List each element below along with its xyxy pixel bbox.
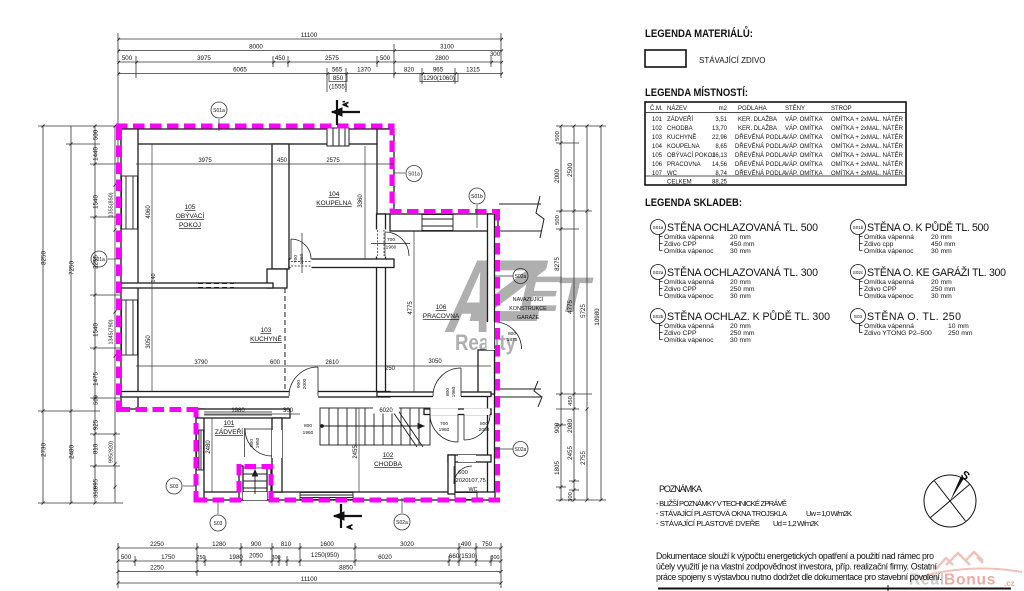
svg-text:- STÁVAJÍCÍ PLASTOVÉ DVEŘE: - STÁVAJÍCÍ PLASTOVÉ DVEŘE (656, 519, 760, 528)
svg-text:30 mm: 30 mm (931, 248, 952, 255)
svg-text:KUCHYNĚ: KUCHYNĚ (667, 133, 696, 141)
svg-text:300: 300 (283, 408, 294, 414)
svg-text:20 mm: 20 mm (931, 279, 952, 286)
svg-text:925: 925 (93, 419, 100, 430)
svg-text:Omítka vápenná: Omítka vápenná (664, 279, 714, 286)
svg-text:660(1530): 660(1530) (449, 553, 477, 560)
svg-text:20 mm: 20 mm (730, 323, 751, 330)
svg-text:500: 500 (121, 554, 132, 561)
svg-text:OMÍTKA + 2xMAL. NÁTĚR: OMÍTKA + 2xMAL. NÁTĚR (831, 169, 904, 177)
svg-text:- STÁVAJÍCÍ PLASTOVÁ OKNA TROJ: - STÁVAJÍCÍ PLASTOVÁ OKNA TROJSKLA (656, 509, 788, 518)
svg-text:30 mm: 30 mm (730, 248, 751, 255)
svg-text:CHODBA: CHODBA (374, 461, 402, 468)
svg-text:1960: 1960 (439, 427, 450, 433)
svg-text:DŘEVĚNÁ PODLA: DŘEVĚNÁ PODLA (735, 169, 786, 177)
svg-text:LEGENDA MATERIÁLŮ:: LEGENDA MATERIÁLŮ: (645, 26, 753, 40)
svg-text:500: 500 (122, 55, 133, 62)
svg-text:1540: 1540 (93, 323, 100, 337)
svg-text:700: 700 (440, 421, 448, 427)
svg-text:Zdivo CPP: Zdivo CPP (864, 286, 897, 293)
svg-text:106: 106 (436, 304, 447, 311)
svg-text:2080: 2080 (479, 427, 490, 433)
svg-text:250: 250 (385, 366, 396, 372)
svg-text:20 mm: 20 mm (730, 234, 751, 241)
svg-text:Omítka vápenoc: Omítka vápenoc (664, 248, 714, 255)
svg-text:Omítka vápenoc: Omítka vápenoc (664, 293, 714, 300)
svg-text:STĚNA O. KE GARÁŽI TL. 30: STĚNA O. KE GARÁŽI TL. 300 (867, 266, 1006, 279)
svg-text:1960: 1960 (303, 430, 314, 436)
svg-text:S03: S03 (170, 484, 179, 490)
svg-text:800: 800 (480, 421, 488, 427)
svg-text:S01a: S01a (213, 108, 225, 114)
svg-text:250 mm: 250 mm (931, 286, 956, 293)
svg-text:2610: 2610 (325, 360, 339, 366)
svg-text:VÁP. OMÍTKA: VÁP. OMÍTKA (785, 125, 823, 132)
svg-text:4775: 4775 (408, 301, 414, 315)
svg-text:750: 750 (482, 541, 493, 548)
svg-text:2730: 2730 (41, 443, 48, 457)
svg-text:965: 965 (433, 67, 444, 74)
svg-text:VÁP. OMÍTKA: VÁP. OMÍTKA (785, 143, 823, 150)
svg-text:8275: 8275 (554, 257, 561, 271)
svg-text:300: 300 (490, 51, 501, 58)
svg-text:850: 850 (333, 75, 344, 82)
svg-text:3,51: 3,51 (715, 117, 727, 123)
svg-text:8250: 8250 (41, 251, 48, 265)
svg-text:102: 102 (652, 126, 663, 132)
svg-text:Zdivo CPP: Zdivo CPP (664, 286, 697, 293)
svg-text:1345(790): 1345(790) (109, 319, 115, 344)
svg-text:1370: 1370 (357, 67, 371, 74)
svg-text:450: 450 (568, 396, 574, 406)
svg-text:DŘEVĚNÁ PODLA: DŘEVĚNÁ PODLA (735, 142, 786, 150)
svg-text:DŘEVĚNÁ PODLA: DŘEVĚNÁ PODLA (735, 160, 786, 168)
svg-text:500: 500 (555, 215, 561, 225)
svg-text:Bonus: Bonus (944, 572, 996, 589)
svg-text:VÁP. OMÍTKA: VÁP. OMÍTKA (785, 161, 823, 168)
svg-text:1355(850): 1355(850) (109, 192, 115, 217)
svg-text:Zdivo CPP: Zdivo CPP (664, 241, 697, 248)
svg-text:140: 140 (151, 273, 157, 282)
svg-text:490: 490 (461, 541, 472, 548)
svg-text:S01b: S01b (853, 225, 864, 230)
svg-text:1805: 1805 (554, 461, 561, 475)
svg-text:14,56: 14,56 (712, 162, 728, 168)
svg-text:2250: 2250 (150, 565, 164, 572)
svg-text:Ud = 1,2 W/m2K: Ud = 1,2 W/m2K (773, 519, 819, 528)
svg-text:1980: 1980 (229, 554, 243, 561)
svg-text:3100: 3100 (440, 44, 454, 51)
svg-text:106: 106 (652, 162, 663, 168)
svg-text:11100: 11100 (301, 32, 318, 39)
svg-text:800: 800 (508, 331, 516, 337)
svg-text:STĚNY: STĚNY (785, 104, 805, 112)
svg-text:2755: 2755 (580, 451, 587, 465)
svg-text:1980: 1980 (231, 408, 245, 414)
svg-text:práce spojeny s výstavbou nutn: práce spojeny s výstavbou nutno dodržet … (656, 572, 942, 582)
svg-text:600: 600 (270, 360, 281, 366)
svg-text:S01a: S01a (408, 172, 420, 178)
svg-text:810: 810 (281, 541, 292, 548)
svg-text:500: 500 (555, 131, 561, 141)
svg-text:1290(1060): 1290(1060) (423, 75, 455, 82)
svg-text:30 mm: 30 mm (730, 293, 751, 300)
svg-text:ZÁDVEŘÍ: ZÁDVEŘÍ (215, 427, 243, 436)
svg-text:700: 700 (387, 237, 395, 243)
svg-text:600: 600 (458, 470, 468, 476)
svg-text:S01a: S01a (653, 225, 664, 230)
svg-text:Zdivo cpp: Zdivo cpp (864, 241, 894, 248)
svg-text:1440: 1440 (93, 147, 100, 161)
svg-text:OMÍTKA + 2xMAL. NÁTĚR: OMÍTKA + 2xMAL. NÁTĚR (831, 133, 904, 141)
svg-text:DŘEVĚNÁ PODLA: DŘEVĚNÁ PODLA (735, 151, 786, 159)
svg-text:Omítka vápenná: Omítka vápenná (864, 234, 914, 241)
svg-text:1875: 1875 (507, 337, 518, 343)
svg-text:STĚNA O. TL. 250: STĚNA O. TL. 250 (867, 310, 961, 323)
svg-text:3975: 3975 (197, 55, 211, 62)
svg-text:S02a: S02a (653, 270, 664, 275)
svg-text:VÁP. OMÍTKA: VÁP. OMÍTKA (785, 152, 823, 159)
svg-text:16,13: 16,13 (712, 153, 728, 159)
svg-text:2050: 2050 (249, 553, 263, 560)
svg-text:1600: 1600 (320, 541, 334, 548)
svg-text:S02a: S02a (515, 447, 527, 453)
svg-text:STÁVAJÍCÍ ZDIVO: STÁVAJÍCÍ ZDIVO (699, 56, 766, 65)
svg-text:OMÍTKA + 2xMAL. NÁTĚR: OMÍTKA + 2xMAL. NÁTĚR (831, 151, 904, 159)
svg-text:1315: 1315 (466, 67, 480, 74)
svg-text:Omítka vápenoc: Omítka vápenoc (864, 293, 914, 300)
svg-text:účely využití je na vlastní zo: účely využití je na vlastní zodpovědnost… (656, 562, 938, 572)
svg-text:450 mm: 450 mm (730, 241, 755, 248)
svg-text:Uw = 1,0 W/m2K: Uw = 1,0 W/m2K (806, 509, 852, 518)
svg-text:101: 101 (652, 117, 663, 123)
svg-text:6065: 6065 (233, 67, 247, 74)
svg-text:WC: WC (469, 487, 478, 493)
svg-text:Omítka vápenná: Omítka vápenná (864, 279, 914, 286)
svg-text:250 mm: 250 mm (730, 286, 755, 293)
svg-text:350: 350 (94, 488, 100, 498)
svg-text:8,74: 8,74 (715, 171, 727, 177)
svg-text:KOUPELNA: KOUPELNA (667, 144, 700, 150)
svg-text:STROP: STROP (831, 106, 852, 112)
svg-text:S01a: S01a (93, 257, 105, 263)
svg-text:102: 102 (383, 452, 394, 459)
svg-text:S01b: S01b (471, 194, 483, 200)
svg-text:8001950: 8001950 (249, 437, 261, 448)
svg-text:10980: 10980 (594, 308, 601, 326)
svg-text:OBÝVACÍ POKOJ: OBÝVACÍ POKOJ (667, 152, 715, 159)
svg-text:STĚNA OCHLAZ. K PŮDĚ TL.: STĚNA OCHLAZ. K PŮDĚ TL. 300 (667, 310, 830, 323)
svg-text:6020: 6020 (379, 408, 393, 414)
svg-text:VÁP. OMÍTKA: VÁP. OMÍTKA (785, 134, 823, 141)
svg-text:.cz: .cz (1004, 579, 1015, 588)
svg-text:2800: 2800 (435, 55, 449, 62)
svg-text:107: 107 (652, 171, 663, 177)
svg-text:810: 810 (93, 443, 100, 454)
svg-text:450 mm: 450 mm (931, 241, 956, 248)
svg-text:500: 500 (380, 55, 391, 62)
svg-text:- BLIŽŠÍ POZNÁMKY V TECHNICKÉ: - BLIŽŠÍ POZNÁMKY V TECHNICKÉ ZPRÁVĚ (656, 499, 787, 508)
svg-text:2500: 2500 (567, 163, 574, 177)
svg-text:CELKEM: CELKEM (667, 180, 692, 186)
svg-text:107,75: 107,75 (468, 478, 486, 484)
svg-text:88,25: 88,25 (712, 180, 728, 186)
svg-text:S03: S03 (214, 521, 223, 527)
svg-text:S02a: S02a (396, 520, 408, 526)
svg-text:2480: 2480 (69, 445, 76, 459)
svg-text:900: 900 (251, 541, 262, 548)
svg-text:2455: 2455 (567, 446, 574, 460)
svg-text:820: 820 (404, 67, 415, 74)
svg-text:POKOJ: POKOJ (179, 222, 201, 229)
svg-text:7250: 7250 (69, 261, 76, 275)
svg-text:6020: 6020 (378, 554, 392, 561)
svg-text:20 mm: 20 mm (730, 279, 751, 286)
svg-text:250 mm: 250 mm (948, 330, 973, 337)
svg-text:PRACOVNA: PRACOVNA (423, 313, 460, 320)
svg-text:20 mm: 20 mm (931, 234, 952, 241)
svg-text:LEGENDA MÍSTNOSTÍ:: LEGENDA MÍSTNOSTÍ: (645, 86, 748, 99)
svg-text:KOUPELNA: KOUPELNA (316, 200, 352, 207)
svg-text:3050: 3050 (428, 359, 442, 365)
svg-text:2575: 2575 (325, 55, 339, 62)
svg-text:OBÝVACÍ: OBÝVACÍ (176, 211, 205, 220)
svg-text:2480: 2480 (206, 440, 212, 454)
svg-text:S02a: S02a (515, 274, 527, 280)
svg-text:10 mm: 10 mm (948, 323, 969, 330)
svg-text:WC: WC (667, 171, 678, 177)
svg-text:A: A (347, 524, 354, 529)
svg-text:250 mm: 250 mm (730, 330, 755, 337)
svg-text:A': A' (343, 101, 350, 107)
svg-text:ZÁDVEŘÍ: ZÁDVEŘÍ (667, 115, 693, 123)
svg-text:STĚNA O. K PŮDĚ TL. 500: STĚNA O. K PŮDĚ TL. 500 (867, 221, 989, 234)
svg-text:S02b: S02b (653, 314, 664, 319)
svg-text:995: 995 (93, 478, 100, 489)
svg-text:KONSTRUKCE: KONSTRUKCE (509, 306, 547, 312)
svg-text:4060: 4060 (146, 205, 152, 219)
svg-text:PODLAHA: PODLAHA (738, 106, 767, 112)
svg-text:Omítka vápenná: Omítka vápenná (664, 323, 714, 330)
svg-text:30 mm: 30 mm (730, 337, 751, 344)
svg-text:500: 500 (93, 129, 100, 140)
svg-text:3790: 3790 (194, 360, 208, 366)
svg-text:DŘEVĚNÁ PODLA: DŘEVĚNÁ PODLA (735, 133, 786, 141)
svg-text:Dokumentace slouží k výpočtu e: Dokumentace slouží k výpočtu energetický… (656, 551, 934, 561)
svg-text:STĚNA OCHLAZOVANÁ TL. 300: STĚNA OCHLAZOVANÁ TL. 300 (667, 266, 818, 279)
svg-text:GARÁŽE: GARÁŽE (517, 313, 540, 321)
svg-text:4775: 4775 (567, 300, 574, 314)
svg-text:103: 103 (652, 135, 663, 141)
svg-text:STĚNA OCHLAZOVANÁ TL. 500: STĚNA OCHLAZOVANÁ TL. 500 (667, 221, 818, 234)
svg-text:3360: 3360 (358, 194, 364, 208)
svg-text:2000: 2000 (554, 169, 561, 183)
svg-text:POZNÁMKA: POZNÁMKA (659, 484, 702, 494)
svg-text:Zdivo CPP: Zdivo CPP (664, 330, 697, 337)
svg-text:VÁP. OMÍTKA: VÁP. OMÍTKA (785, 116, 823, 123)
svg-text:2575: 2575 (326, 158, 340, 164)
svg-text:13,70: 13,70 (712, 126, 728, 132)
svg-text:900: 900 (554, 422, 561, 433)
svg-text:104: 104 (652, 144, 663, 150)
svg-text:S02c: S02c (853, 270, 864, 275)
svg-text:OMÍTKA + 2xMAL. NÁTĚR: OMÍTKA + 2xMAL. NÁTĚR (831, 124, 904, 132)
svg-text:1750: 1750 (161, 554, 175, 561)
svg-text:3020: 3020 (400, 541, 414, 548)
svg-text:101: 101 (224, 420, 235, 427)
svg-text:1475: 1475 (93, 372, 100, 386)
svg-text:3975: 3975 (198, 158, 212, 164)
svg-text:11100: 11100 (301, 576, 318, 583)
svg-text:1960: 1960 (386, 245, 397, 251)
svg-text:S03: S03 (854, 314, 863, 319)
svg-text:800: 800 (304, 423, 312, 429)
svg-text:105: 105 (652, 153, 663, 159)
svg-text:LEGENDA SKLADEB:: LEGENDA SKLADEB: (645, 197, 742, 209)
svg-text:30 mm: 30 mm (931, 293, 952, 300)
svg-text:565: 565 (332, 67, 343, 74)
svg-text:KER. DLAŽBA: KER. DLAŽBA (738, 124, 777, 132)
svg-text:KUCHYNĚ: KUCHYNĚ (250, 334, 282, 343)
svg-text:(1555): (1555) (329, 84, 347, 91)
svg-text:OMÍTKA + 2xMAL. NÁTĚR: OMÍTKA + 2xMAL. NÁTĚR (831, 160, 904, 168)
svg-text:Omítka vápenoc: Omítka vápenoc (864, 248, 914, 255)
svg-text:5725: 5725 (580, 304, 587, 318)
svg-text:2250: 2250 (150, 541, 164, 548)
svg-text:995(920): 995(920) (109, 441, 115, 463)
svg-text:PRACOVNA: PRACOVNA (667, 162, 701, 168)
svg-text:8000: 8000 (249, 44, 263, 51)
svg-text:OMÍTKA + 2xMAL. NÁTĚR: OMÍTKA + 2xMAL. NÁTĚR (831, 115, 904, 123)
svg-text:m2: m2 (719, 106, 728, 112)
svg-text:450: 450 (277, 158, 288, 164)
svg-text:CHODBA: CHODBA (667, 126, 693, 132)
svg-text:Omítka vápenná: Omítka vápenná (864, 323, 914, 330)
svg-text:105: 105 (185, 204, 196, 211)
svg-text:1540: 1540 (93, 195, 100, 209)
svg-text:NÁZEV: NÁZEV (667, 105, 687, 112)
svg-text:8,65: 8,65 (715, 144, 727, 150)
svg-text:Omítka vápenoc: Omítka vápenoc (664, 337, 714, 344)
svg-text:2455: 2455 (353, 445, 359, 459)
svg-text:NAVAZUJÍCÍ: NAVAZUJÍCÍ (513, 296, 544, 303)
svg-text:9002000: 9002000 (296, 378, 308, 389)
svg-text:22,96: 22,96 (712, 135, 728, 141)
svg-text:1250(950): 1250(950) (311, 552, 339, 559)
svg-text:450: 450 (275, 55, 286, 62)
svg-text:3050: 3050 (146, 335, 152, 349)
svg-text:103: 103 (261, 327, 272, 334)
svg-text:OMÍTKA + 2xMAL. NÁTĚR: OMÍTKA + 2xMAL. NÁTĚR (831, 142, 904, 150)
svg-text:KER. DLAŽBA: KER. DLAŽBA (738, 115, 777, 123)
svg-text:8850: 8850 (339, 565, 353, 572)
svg-text:VÁP. OMÍTKA: VÁP. OMÍTKA (785, 170, 823, 177)
svg-text:2080: 2080 (567, 419, 574, 433)
svg-text:Zdivo YTONG P2–500: Zdivo YTONG P2–500 (864, 330, 932, 337)
svg-text:Omítka vápenná: Omítka vápenná (664, 234, 714, 241)
svg-text:2020: 2020 (456, 478, 469, 484)
svg-text:1280: 1280 (212, 541, 226, 548)
svg-text:104: 104 (329, 191, 340, 198)
svg-text:Č.M.: Č.M. (650, 105, 663, 112)
